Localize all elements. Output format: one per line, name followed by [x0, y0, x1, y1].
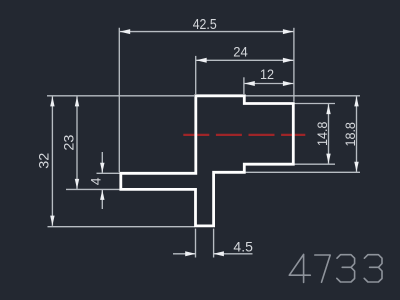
svg-text:32: 32	[36, 153, 52, 169]
svg-text:23: 23	[61, 134, 77, 150]
svg-text:18.8: 18.8	[342, 122, 358, 147]
svg-text:14.8: 14.8	[314, 121, 330, 146]
svg-text:4.5: 4.5	[233, 238, 253, 254]
svg-text:12: 12	[260, 66, 274, 82]
svg-text:4: 4	[87, 177, 103, 185]
svg-text:24: 24	[233, 43, 248, 59]
svg-text:42.5: 42.5	[193, 17, 217, 33]
